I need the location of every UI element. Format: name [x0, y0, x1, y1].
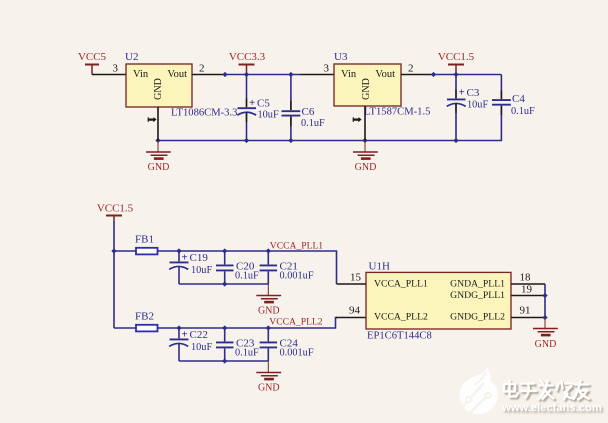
power symbol VCC1.5 — [438, 51, 475, 75]
wire to C5 — [246, 75, 248, 99]
svg-text:C3: C3 — [467, 87, 480, 99]
svg-text:Vout: Vout — [167, 69, 187, 80]
svg-text:VCCA_PLL2: VCCA_PLL2 — [269, 316, 323, 327]
svg-text:0.001uF: 0.001uF — [280, 271, 314, 282]
svg-text:LT1086CM-3.3: LT1086CM-3.3 — [171, 107, 237, 118]
svg-text:C22: C22 — [190, 329, 208, 341]
wire C3 to bottom rail — [455, 113, 457, 141]
power symbol VCC1.5 (PLL filter) — [97, 202, 134, 221]
svg-text:GND: GND — [258, 383, 280, 394]
junction C24 / VCCA_PLL2 rail — [266, 325, 271, 330]
pin 91 — [511, 317, 545, 319]
svg-text:0.001uF: 0.001uF — [280, 348, 314, 359]
svg-text:U3: U3 — [334, 51, 348, 63]
wire to C3 — [455, 75, 457, 90]
pin 2 of U2 — [192, 74, 225, 76]
svg-text:+: + — [249, 97, 255, 109]
zh glyph zi — [521, 384, 537, 398]
svg-text:0.1uF: 0.1uF — [511, 106, 535, 117]
ferrite bead FB1 — [136, 248, 158, 255]
junction C6 / ground rail — [288, 138, 293, 143]
pin 15 — [337, 283, 367, 285]
ground GND (under U2) — [146, 141, 171, 159]
svg-text:VCC1.5: VCC1.5 — [438, 51, 475, 63]
capacitor C20 — [216, 251, 259, 284]
svg-text:GNDG_PLL2: GNDG_PLL2 — [450, 311, 505, 322]
svg-text:GND: GND — [148, 162, 170, 173]
svg-text:Vin: Vin — [133, 69, 149, 80]
ground GND (under C21) — [256, 284, 281, 302]
svg-text:GND: GND — [258, 306, 280, 317]
junction C3 / ground rail — [453, 138, 458, 143]
capacitor C24 — [260, 328, 314, 361]
svg-text:VCCA_PLL1: VCCA_PLL1 — [374, 278, 428, 289]
junction FB1 branch — [111, 248, 116, 253]
svg-text:10uF: 10uF — [258, 110, 279, 121]
junction C21 / VCCA_PLL1 rail — [266, 248, 271, 253]
svg-text:0.1uF: 0.1uF — [235, 348, 259, 359]
svg-text:GNDA_PLL1: GNDA_PLL1 — [450, 278, 505, 289]
junction C20 / VCCA_PLL1 rail — [222, 248, 227, 253]
junction pin19 / bus — [542, 293, 547, 298]
svg-text:2: 2 — [199, 63, 205, 75]
svg-text:0.1uF: 0.1uF — [235, 271, 259, 282]
capacitor C3 — [447, 86, 489, 113]
svg-text:U2: U2 — [125, 51, 138, 63]
svg-text:Vin: Vin — [341, 69, 357, 80]
svg-text:10uF: 10uF — [191, 342, 212, 353]
svg-text:91: 91 — [520, 304, 531, 316]
capacitor C19 — [169, 251, 212, 284]
junction C23 / VCCA_PLL2 rail — [222, 325, 227, 330]
wire U2 pin2 to U3 pin3 — [225, 74, 300, 76]
capacitor C6 — [282, 101, 326, 129]
svg-text:3: 3 — [113, 63, 119, 75]
svg-text:VCC1.5: VCC1.5 — [97, 202, 134, 214]
ground GND (under U3) — [353, 141, 378, 159]
pin 1 of U3 — [364, 106, 366, 141]
ground GND (under C24) — [256, 361, 281, 379]
svg-text:GND: GND — [535, 339, 557, 350]
regulator U2 — [125, 51, 237, 118]
zh glyph fa — [539, 381, 554, 400]
regulator U3 — [334, 51, 430, 117]
svg-text:FB1: FB1 — [135, 234, 154, 246]
wire FB1 to U1H pin15 — [158, 251, 337, 284]
junction C19 / VCCA_PLL1 rail — [176, 248, 181, 253]
wire FB2 to U1H pin94 — [158, 318, 338, 329]
svg-text:www.elecfans.com: www.elecfans.com — [501, 402, 602, 414]
watermark logo — [460, 368, 498, 416]
capacitor C4 — [492, 91, 535, 118]
capacitor C21 — [260, 251, 314, 284]
pin 2 of U3 — [401, 74, 435, 76]
bottom ground rail — [158, 140, 456, 142]
junction C6 / top wire — [288, 72, 293, 77]
svg-text:0.1uF: 0.1uF — [301, 118, 325, 129]
svg-text:15: 15 — [350, 271, 362, 283]
svg-text:VCCA_PLL2: VCCA_PLL2 — [374, 311, 428, 322]
junction U2 pin1 / ground rail — [155, 138, 160, 143]
svg-text:+: + — [459, 86, 465, 98]
svg-text:10uF: 10uF — [467, 99, 488, 110]
svg-text:LT1587CM-1.5: LT1587CM-1.5 — [364, 106, 430, 117]
capacitor C22 — [169, 328, 212, 361]
wire to FB2 — [114, 327, 136, 329]
svg-text:VCC5: VCC5 — [78, 51, 107, 63]
junction pin91 / bus — [542, 315, 547, 320]
wire C5 to bottom rail — [246, 122, 248, 141]
svg-text:FB2: FB2 — [135, 311, 154, 323]
FPGA U1H — [366, 261, 511, 342]
junction C22 / VCCA_PLL2 rail — [176, 325, 181, 330]
pin 1 of U2 — [157, 107, 159, 141]
svg-text:EP1C6T144C8: EP1C6T144C8 — [367, 330, 432, 341]
svg-text:GND: GND — [361, 78, 372, 100]
cap ground rail (row 1) — [179, 283, 268, 285]
svg-text:C6: C6 — [302, 106, 315, 118]
svg-text:GNDG_PLL1: GNDG_PLL1 — [450, 290, 505, 301]
wire C4 to bottom rail — [456, 115, 501, 141]
svg-text:+: + — [182, 252, 188, 264]
svg-text:10uF: 10uF — [191, 265, 212, 276]
junction C5 / ground rail — [244, 138, 249, 143]
zh glyph dian — [504, 381, 518, 397]
ferrite bead FB2 — [136, 325, 158, 332]
junction U3 pin2 / wire — [431, 72, 436, 77]
wire right ground bus — [544, 284, 546, 318]
wire VCC1.5 down to FB2 row — [113, 221, 115, 328]
wire U3 pin2 to C4 — [435, 74, 501, 76]
capacitor C23 — [216, 328, 259, 361]
wire C6 to bottom rail — [290, 126, 292, 141]
svg-text:VCCA_PLL1: VCCA_PLL1 — [270, 240, 324, 251]
svg-text:C4: C4 — [512, 93, 525, 105]
svg-text:GND: GND — [355, 162, 377, 173]
cap ground rail (row 2) — [179, 360, 268, 362]
svg-text:U1H: U1H — [369, 261, 390, 273]
pin 18 — [511, 283, 545, 285]
wire to C6 — [290, 75, 292, 102]
pin 3 of U3 — [300, 74, 334, 76]
junction C23 / cap ground rail — [222, 358, 227, 363]
svg-text:18: 18 — [520, 271, 532, 283]
wire VCC5 to U2 pin3 — [92, 74, 126, 76]
svg-text:3: 3 — [324, 63, 330, 75]
pin 19 — [511, 295, 545, 297]
zh glyph shao — [557, 382, 574, 400]
wire to FB1 — [114, 250, 136, 252]
svg-text:VCC3.3: VCC3.3 — [229, 51, 266, 63]
zh glyph you — [574, 381, 590, 400]
node VCC1.5 junction — [453, 72, 458, 77]
junction U3 pin1 / ground rail — [362, 138, 367, 143]
node VCC3.3 junction — [244, 72, 249, 77]
junction C20 / cap ground rail — [222, 281, 227, 286]
ground GND (right of U1H) — [533, 318, 558, 336]
svg-text:C5: C5 — [257, 98, 270, 110]
svg-text:2: 2 — [408, 63, 414, 75]
junction U2 pin2 / wire — [222, 72, 227, 77]
wire corner down to C4 — [500, 75, 502, 91]
svg-text:C19: C19 — [190, 252, 209, 264]
capacitor C5 — [237, 97, 279, 122]
svg-text:94: 94 — [349, 304, 361, 316]
svg-text:GND: GND — [153, 78, 164, 100]
power symbol VCC3.3 — [229, 51, 266, 75]
svg-text:Vout: Vout — [375, 69, 395, 80]
svg-text:+: + — [182, 329, 188, 341]
svg-text:19: 19 — [521, 284, 533, 296]
power symbol VCC5 — [78, 51, 107, 75]
